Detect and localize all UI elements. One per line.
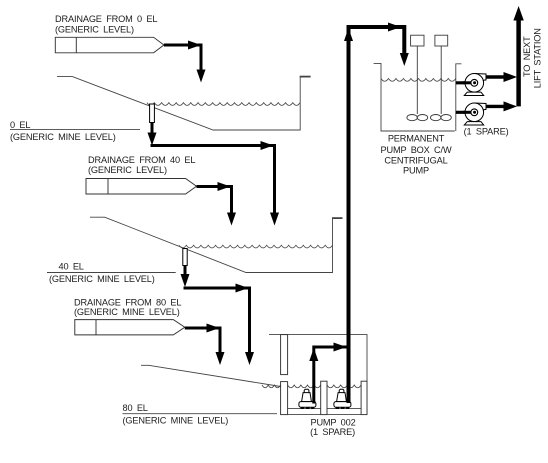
svg-text:PUMP: PUMP [403, 166, 429, 176]
svg-text:(1 SPARE): (1 SPARE) [310, 427, 355, 437]
svg-text:(GENERIC MINE LEVEL): (GENERIC MINE LEVEL) [123, 415, 229, 425]
svg-text:0 EL: 0 EL [10, 120, 30, 130]
svg-text:PUMP 002: PUMP 002 [310, 417, 355, 427]
svg-text:(GENERIC MINE LEVEL): (GENERIC MINE LEVEL) [10, 132, 116, 142]
svg-text:40 EL: 40 EL [59, 262, 84, 272]
svg-text:LIFT STATION: LIFT STATION [533, 28, 543, 88]
svg-text:(GENERIC LEVEL): (GENERIC LEVEL) [88, 165, 167, 175]
svg-text:(GENERIC MINE LEVEL): (GENERIC MINE LEVEL) [74, 307, 180, 317]
svg-text:DRAINAGE FROM 0 EL: DRAINAGE FROM 0 EL [55, 14, 157, 24]
svg-text:CENTRIFUGAL: CENTRIFUGAL [384, 155, 447, 165]
svg-text:80 EL: 80 EL [123, 403, 148, 413]
svg-text:DRAINAGE FROM 40 EL: DRAINAGE FROM 40 EL [88, 155, 195, 165]
svg-text:TO NEXT: TO NEXT [522, 36, 532, 77]
svg-text:(1 SPARE): (1 SPARE) [464, 127, 509, 137]
svg-text:PERMANENT: PERMANENT [388, 134, 445, 144]
svg-text:(GENERIC MINE LEVEL): (GENERIC MINE LEVEL) [49, 274, 155, 284]
svg-text:PUMP BOX C/W: PUMP BOX C/W [381, 145, 452, 155]
svg-text:(GENERIC LEVEL): (GENERIC LEVEL) [55, 25, 134, 35]
